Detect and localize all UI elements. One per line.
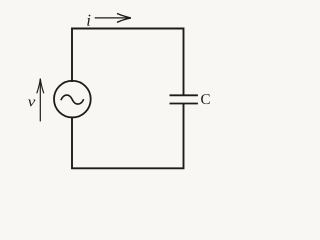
voltage arrow (shaft) [39, 79, 41, 121]
sine wave inside source [61, 95, 84, 104]
current arrow head [117, 14, 131, 23]
capacitor C top plate [170, 94, 198, 96]
label C [201, 94, 210, 104]
ac voltage source (circle) [54, 81, 91, 118]
label v [28, 100, 35, 107]
wire: left-bottom segment, bottom wire, right-bottom segment up to capacitor [72, 105, 184, 169]
voltage arrow head [37, 79, 44, 94]
capacitor C bottom plate [170, 103, 198, 105]
current arrow (shaft) [95, 17, 131, 19]
wire: left-top segment, top wire, right-top segment down to capacitor [72, 29, 184, 95]
label i [87, 15, 90, 26]
